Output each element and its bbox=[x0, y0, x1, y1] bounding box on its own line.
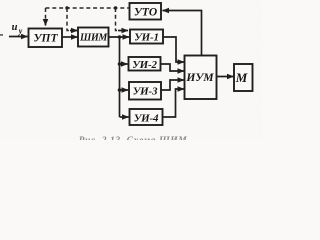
junction dot bus at УИ-3 bbox=[118, 88, 122, 92]
wire bus branch to УИ-4 bbox=[120, 116, 129, 118]
arrow into ШИМ control input bbox=[70, 30, 78, 32]
block УИ-4 bbox=[130, 109, 163, 125]
svg-text:УИ-3: УИ-3 bbox=[133, 86, 158, 98]
input label u_y bbox=[12, 22, 23, 36]
wire УИ-3 to ИУМ bbox=[161, 80, 184, 90]
svg-text:УИ-4: УИ-4 bbox=[134, 113, 159, 125]
svg-text:УИ-1: УИ-1 bbox=[134, 32, 159, 44]
svg-text:УИ-2: УИ-2 bbox=[132, 59, 157, 71]
wire УИ-1 to ИУМ bbox=[163, 37, 184, 62]
svg-text:ИУМ: ИУМ bbox=[185, 72, 214, 84]
wire ШИМ to УИ-1 bbox=[109, 36, 130, 38]
wire bus branch to УИ-3 bbox=[120, 89, 129, 91]
svg-text:УТО: УТО bbox=[134, 7, 157, 19]
wire feedback ИУМ top to УТО bbox=[163, 11, 202, 56]
block УИ-2 bbox=[129, 57, 161, 71]
junction dot bus top bbox=[118, 35, 122, 39]
wire УИ-2 to ИУМ bbox=[161, 64, 185, 71]
dashed bus УТО output bbox=[46, 7, 130, 9]
wire УПТ to ШИМ bbox=[62, 36, 78, 38]
block УИ-3 bbox=[129, 82, 161, 100]
dashed drop to УПТ top bbox=[45, 8, 47, 20]
junction dot bus at УИ-2 bbox=[118, 62, 122, 66]
wire ИУМ to М bbox=[217, 76, 234, 78]
scan mark at left edge bbox=[0, 34, 3, 36]
svg-text:ШИМ: ШИМ bbox=[79, 33, 108, 44]
dashed drop to ШИМ control input bbox=[67, 8, 69, 31]
paper background bbox=[0, 0, 262, 140]
block ШИМ bbox=[78, 28, 109, 47]
svg-text:у: у bbox=[18, 27, 23, 36]
svg-text:Рис. 2.13. Схема ШИМ: Рис. 2.13. Схема ШИМ bbox=[79, 136, 188, 140]
junction dot dashed bus at УИ-1 drop bbox=[114, 6, 117, 9]
block УПТ bbox=[29, 29, 63, 48]
wire УИ-4 to ИУМ bbox=[163, 89, 185, 117]
svg-text:УПТ: УПТ bbox=[34, 33, 59, 45]
wire input arrow to УПТ bbox=[9, 36, 28, 38]
svg-text:М: М bbox=[235, 70, 248, 85]
junction dot dashed bus at ШИМ drop bbox=[65, 6, 68, 9]
svg-text:u: u bbox=[12, 22, 18, 33]
block УИ-1 bbox=[130, 30, 163, 44]
wire vertical bus bbox=[119, 37, 121, 117]
arrow into УИ-1 control input bbox=[118, 30, 128, 32]
dashed drop to УИ-1 control input bbox=[116, 8, 118, 31]
block М bbox=[234, 64, 253, 91]
arrow into УПТ top bbox=[45, 20, 47, 26]
wire bus branch to УИ-2 bbox=[120, 63, 128, 65]
block ИУМ bbox=[185, 56, 217, 100]
block УТО bbox=[130, 3, 162, 20]
